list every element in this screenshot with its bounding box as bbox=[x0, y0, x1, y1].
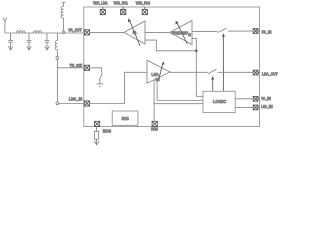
node (connector) bbox=[56, 102, 59, 105]
svg-text:LOGIC: LOGIC bbox=[213, 99, 226, 104]
svg-text:VDD_PA1: VDD_PA1 bbox=[113, 1, 128, 6]
svg-text:HGM: HGM bbox=[151, 126, 158, 131]
wire to LNA_IN bbox=[59, 103, 84, 105]
svg-text:BIAS: BIAS bbox=[103, 128, 111, 133]
wire LNA out to switch bbox=[170, 71, 208, 73]
wire TR_SW branch bbox=[57, 67, 84, 69]
svg-text:PA_OUT: PA_OUT bbox=[69, 27, 83, 32]
wire junction to LOGIC bbox=[196, 51, 203, 97]
wire PA lower stub to junction bbox=[145, 40, 196, 51]
pin LNA_IN bbox=[84, 101, 89, 106]
pin VDD_LNA bbox=[100, 7, 105, 15]
wire LNA EN A tee to LOGIC bbox=[154, 103, 203, 105]
resistor R1 (external bias) bbox=[95, 127, 99, 145]
op-amp LNA bbox=[147, 60, 170, 83]
inductor L1 bbox=[16, 31, 25, 33]
switch S1 (TX) bbox=[217, 28, 226, 32]
svg-text:VDD_LNA: VDD_LNA bbox=[93, 1, 108, 6]
svg-text:PREAMP: PREAMP bbox=[172, 30, 189, 35]
switch S1 control arrow bbox=[222, 33, 225, 91]
wire LNA EN B to LOGIC bbox=[157, 78, 203, 100]
ground bbox=[94, 141, 99, 145]
svg-text:BIAS: BIAS bbox=[122, 116, 129, 121]
svg-text:LNA_EN: LNA_EN bbox=[261, 104, 273, 109]
gain arrow PREAMP bbox=[175, 21, 187, 45]
inductor L4 (choke to supply) bbox=[61, 3, 63, 31]
wire PREAMP EN stub bbox=[192, 38, 196, 50]
svg-text:LNA: LNA bbox=[151, 72, 158, 77]
node (connector) bbox=[56, 57, 59, 60]
pin TR_SW bbox=[84, 65, 89, 70]
supply terminal bbox=[62, 2, 65, 4]
wire main ANT line bbox=[5, 32, 84, 34]
gain arrow LNA bbox=[159, 61, 165, 79]
wire LNA_IN route bbox=[90, 72, 148, 103]
wire switch to LNA_OUT bbox=[218, 71, 254, 73]
pin VDD_PA1 bbox=[121, 7, 126, 15]
svg-text:PA_IN: PA_IN bbox=[262, 30, 272, 35]
ground bbox=[96, 84, 103, 86]
pin PA_OUT bbox=[84, 30, 89, 35]
pin LNA_EN bbox=[253, 105, 259, 110]
pin BIAS bbox=[95, 121, 100, 126]
wire PA to PREAMP bbox=[145, 31, 170, 33]
wire TR_SW inside bbox=[90, 68, 102, 73]
wire switch to PA_IN bbox=[228, 30, 253, 32]
ground bbox=[45, 46, 50, 50]
wire LOGIC to LNA_EN bbox=[235, 106, 253, 108]
svg-text:EN: EN bbox=[188, 33, 191, 37]
wire LNA EN A to HGM pin bbox=[153, 80, 155, 122]
svg-text:LNA_OUT: LNA_OUT bbox=[262, 71, 278, 76]
pin LNA_OUT bbox=[253, 70, 259, 75]
wire PA_OUT to PA bbox=[90, 31, 125, 33]
svg-text:LNA_IN: LNA_IN bbox=[69, 96, 82, 101]
op-amp PA bbox=[124, 21, 145, 44]
svg-text:TR_SW: TR_SW bbox=[70, 63, 83, 68]
svg-text:PA_EN: PA_EN bbox=[261, 96, 271, 101]
inductor L2 bbox=[33, 31, 41, 33]
pin HGM bbox=[152, 121, 157, 126]
antenna ANT bbox=[3, 18, 7, 33]
node (choke tap) bbox=[62, 31, 65, 34]
wire RX node down bbox=[56, 59, 58, 102]
chip outline U1 bbox=[84, 7, 260, 127]
junction bbox=[195, 50, 198, 53]
capacitor C3 bbox=[45, 33, 50, 49]
ground bbox=[8, 46, 13, 50]
pin VDD_PA2 bbox=[142, 7, 147, 15]
wire LOGIC to PA_EN bbox=[235, 98, 253, 100]
gain arrow PA bbox=[128, 18, 140, 46]
ground bbox=[27, 46, 32, 50]
switch S2 (RX) bbox=[208, 69, 217, 73]
svg-text:VDD_PA2: VDD_PA2 bbox=[136, 1, 151, 6]
inductor L3 (series to RX node, vertical) bbox=[55, 33, 57, 57]
op-amp PREAMP bbox=[170, 21, 192, 45]
bias block bbox=[112, 111, 138, 125]
switch S2 control arrow bbox=[211, 76, 214, 92]
switch S3 (shunt to ground) bbox=[99, 73, 102, 80]
wire PREAMP out to switch bbox=[192, 30, 217, 32]
svg-text:EN: EN bbox=[156, 78, 160, 82]
pin PA_EN bbox=[253, 96, 259, 101]
capacitor C1 bbox=[8, 33, 13, 49]
pin PA_IN bbox=[253, 29, 259, 34]
logic block bbox=[203, 91, 235, 112]
capacitor C2 bbox=[27, 33, 32, 49]
